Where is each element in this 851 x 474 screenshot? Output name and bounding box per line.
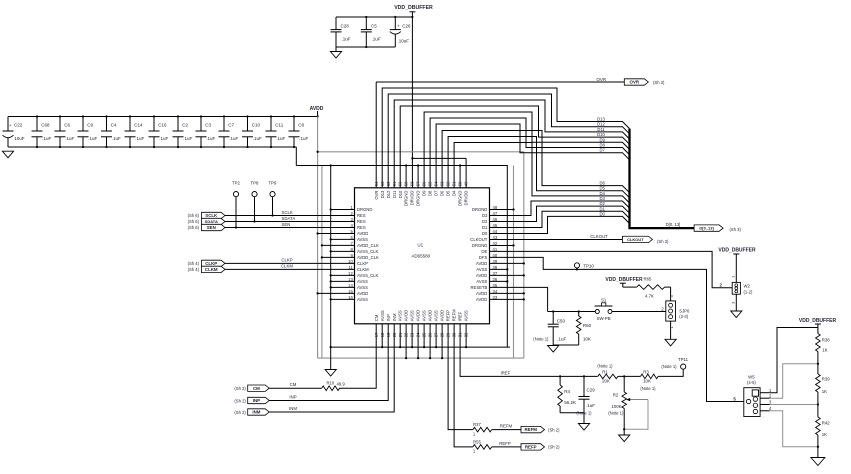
svg-text:D11: D11 xyxy=(392,190,397,198)
node REFP flag (Sh 2) xyxy=(521,444,560,450)
svg-text:AVDD: AVDD xyxy=(476,291,487,296)
svg-text:(Sh 4): (Sh 4) xyxy=(188,267,200,272)
svg-text:10K: 10K xyxy=(583,337,591,342)
svg-text:10K: 10K xyxy=(643,379,651,384)
wire AVSS loop (black) xyxy=(296,164,507,347)
wire D11 xyxy=(394,100,629,188)
svg-text:.1uF: .1uF xyxy=(42,136,51,141)
wire right AVDD stubs xyxy=(490,262,525,300)
capacitor C26 (polarized) xyxy=(390,16,411,47)
wire CLKM xyxy=(225,264,355,270)
wire switch row xyxy=(548,311,666,313)
svg-text:AVSS: AVSS xyxy=(464,310,469,321)
svg-text:DRGND: DRGND xyxy=(458,191,463,206)
svg-text:.1uF: .1uF xyxy=(342,37,351,42)
svg-text:CM: CM xyxy=(290,382,297,387)
svg-text:CLKM: CLKM xyxy=(205,267,218,272)
ground (AVSS rail) xyxy=(325,347,336,376)
svg-text:AVSS: AVSS xyxy=(476,279,487,284)
svg-text:.1uF: .1uF xyxy=(88,136,97,141)
svg-text:+: + xyxy=(9,124,12,129)
svg-text:AVSS: AVSS xyxy=(357,285,368,290)
wire DRGND vertical (gray, inner-right) xyxy=(513,166,515,359)
svg-text:AVDD: AVDD xyxy=(310,106,324,112)
wire D7 xyxy=(436,124,629,188)
node CLKP flag (Sh 4) xyxy=(188,260,225,266)
svg-text:C29: C29 xyxy=(587,388,596,393)
connector W5 (4-5) xyxy=(733,374,772,416)
svg-text:AVDD: AVDD xyxy=(476,297,487,302)
capacitor C7 xyxy=(219,115,239,148)
wire right DRGND stubs xyxy=(490,208,515,246)
svg-text:1K: 1K xyxy=(822,432,827,437)
wire top cap rail xyxy=(336,17,412,47)
wire left AVDD stubs xyxy=(316,232,354,294)
svg-text:RESETB: RESETB xyxy=(471,285,488,290)
svg-text:W5: W5 xyxy=(748,374,755,379)
svg-text:(Sh 2): (Sh 2) xyxy=(234,398,246,403)
wire AVDD vertical (gray, left) xyxy=(317,117,319,359)
resistor R65 xyxy=(623,277,671,299)
svg-text:INM: INM xyxy=(289,406,297,411)
svg-text:TP11: TP11 xyxy=(678,357,689,362)
svg-text:D[0..13]: D[0..13] xyxy=(699,226,714,231)
svg-text:C14: C14 xyxy=(134,123,143,128)
wire right AVSS stubs xyxy=(490,268,509,282)
wire INM xyxy=(269,324,394,412)
node OVR flag (Sh 3) xyxy=(624,79,665,85)
node REFM flag (Sh 2) xyxy=(521,426,560,432)
svg-text:(Note 1): (Note 1) xyxy=(661,364,677,369)
wire SEN xyxy=(225,222,355,228)
wire SCLK xyxy=(225,210,355,216)
wire CLKP xyxy=(225,258,355,264)
svg-text:AVSS: AVSS xyxy=(410,310,415,321)
svg-text:CLKOUT: CLKOUT xyxy=(627,237,644,242)
svg-text:TP8: TP8 xyxy=(251,180,259,185)
svg-text:D6: D6 xyxy=(440,190,445,196)
svg-text:REFP: REFP xyxy=(499,441,511,446)
svg-text:C10: C10 xyxy=(252,123,261,128)
wire REFM / resistor R37 xyxy=(448,324,521,437)
svg-text:AVSS: AVSS xyxy=(476,267,487,272)
node INM flag (Sh 2) xyxy=(234,409,269,415)
svg-text:20K: 20K xyxy=(602,379,610,384)
svg-text:49: 49 xyxy=(464,181,469,186)
svg-text:AVSS: AVSS xyxy=(380,310,385,321)
svg-text:C5: C5 xyxy=(371,23,377,28)
svg-text:VDD_DBUFFER: VDD_DBUFFER xyxy=(605,277,643,283)
svg-text:49.9: 49.9 xyxy=(337,381,346,386)
svg-text:C6: C6 xyxy=(64,123,70,128)
wire RESETB xyxy=(490,287,548,311)
svg-text:R38: R38 xyxy=(822,337,830,342)
wire D10 xyxy=(400,106,629,188)
capacitor C29 xyxy=(576,376,595,415)
svg-text:DRGND: DRGND xyxy=(357,207,372,212)
svg-text:(4-5): (4-5) xyxy=(747,380,756,385)
svg-text:AVSS: AVSS xyxy=(357,297,368,302)
svg-text:R3: R3 xyxy=(643,369,649,374)
wire CLKOUT xyxy=(490,234,623,240)
svg-text:D0: D0 xyxy=(599,211,605,216)
svg-text:10uF: 10uF xyxy=(399,38,410,43)
wire DFS / TP10 net xyxy=(490,257,744,401)
svg-text:D8: D8 xyxy=(428,190,433,196)
svg-text:VDD_DBUFFER: VDD_DBUFFER xyxy=(394,5,433,11)
svg-text:R42: R42 xyxy=(822,421,830,426)
svg-text:10uF: 10uF xyxy=(14,136,25,141)
wire D2 xyxy=(490,201,630,221)
svg-text:C4: C4 xyxy=(111,123,117,128)
svg-text:C11: C11 xyxy=(275,123,283,128)
wire DRGND top stubs xyxy=(405,164,461,187)
svg-text:AVDD_CLK: AVDD_CLK xyxy=(357,243,379,248)
capacitor C2 xyxy=(173,115,193,148)
svg-text:RES: RES xyxy=(357,219,366,224)
capacitor C6 xyxy=(55,115,75,148)
svg-text:C9: C9 xyxy=(87,123,93,128)
svg-text:TP2: TP2 xyxy=(232,180,240,185)
svg-text:REFM: REFM xyxy=(525,427,538,432)
svg-text:SDATA: SDATA xyxy=(205,219,218,224)
svg-text:AVDD: AVDD xyxy=(476,273,487,278)
svg-text:SEN: SEN xyxy=(207,225,216,230)
svg-text:INP: INP xyxy=(289,394,296,399)
svg-text:DRGND: DRGND xyxy=(472,207,487,212)
wire AVDD_CLK vertical (gray, inner-left) xyxy=(321,166,323,359)
test point TP9 xyxy=(269,180,277,216)
svg-text:CLKOUT: CLKOUT xyxy=(590,234,608,239)
wire D6 xyxy=(442,131,629,193)
wire D13 xyxy=(382,88,629,188)
svg-text:(2-3): (2-3) xyxy=(679,314,688,319)
op-amp U1 body (AD65580) xyxy=(355,188,490,324)
svg-text:DFS: DFS xyxy=(479,255,488,260)
svg-text:C8: C8 xyxy=(298,123,304,128)
svg-text:D0: D0 xyxy=(482,231,488,236)
wire AVDD cap row top rail xyxy=(8,115,319,117)
svg-text:.1uF: .1uF xyxy=(557,337,566,342)
svg-text:AVSS: AVSS xyxy=(357,237,368,242)
svg-text:AVDD: AVDD xyxy=(476,261,487,266)
svg-text:IREF: IREF xyxy=(501,371,511,376)
svg-text:R65: R65 xyxy=(644,277,652,282)
svg-text:(Sh 2): (Sh 2) xyxy=(234,410,246,415)
svg-text:(Sh 4): (Sh 4) xyxy=(188,261,200,266)
svg-text:INP: INP xyxy=(386,314,391,321)
node CLKOUT flag (Sh 3) xyxy=(622,236,669,244)
wire D3 xyxy=(490,196,630,215)
wire DRVDD top rail xyxy=(412,158,466,187)
svg-text:C7: C7 xyxy=(228,123,234,128)
wire AVDD loop bottom (gray) xyxy=(318,357,524,359)
power flag VDD_DBUFFER (R38) xyxy=(799,318,837,328)
capacitor C3 xyxy=(196,115,216,148)
jumper SJP6 (2-3) xyxy=(661,287,690,328)
svg-text:RES: RES xyxy=(357,213,366,218)
svg-text:R37: R37 xyxy=(473,422,481,427)
wire VDD_DBUFFER vertical to pin 58 xyxy=(411,16,413,188)
wire OVR xyxy=(376,77,624,188)
wire W5 pin1 to VDD xyxy=(770,328,818,393)
svg-text:CLKM: CLKM xyxy=(357,267,369,272)
svg-text:D2: D2 xyxy=(482,219,488,224)
svg-text:1K: 1K xyxy=(822,389,827,394)
wire D12 xyxy=(388,94,629,188)
svg-text:AVDD: AVDD xyxy=(416,310,421,321)
svg-text:OVR: OVR xyxy=(630,80,640,85)
svg-text:AVSS_CLK: AVSS_CLK xyxy=(357,273,379,278)
svg-text:S1: S1 xyxy=(601,297,607,302)
svg-text:CLKP: CLKP xyxy=(281,258,292,263)
svg-text:AVSS: AVSS xyxy=(357,279,368,284)
svg-text:(Sh 6): (Sh 6) xyxy=(188,213,200,218)
svg-text:.1uF: .1uF xyxy=(372,37,381,42)
svg-text:.1uF: .1uF xyxy=(276,136,285,141)
node SDATA flag (Sh 6) xyxy=(188,218,225,224)
svg-text:D3: D3 xyxy=(482,213,488,218)
wire D0 xyxy=(490,211,630,233)
resistor R4 xyxy=(558,376,576,412)
svg-text:AVSS: AVSS xyxy=(422,310,427,321)
node CM flag (Sh 2) xyxy=(234,385,269,391)
power flag AVDD xyxy=(310,106,324,117)
svg-text:.1uF: .1uF xyxy=(112,136,121,141)
node SCLK flag (Sh 6) xyxy=(188,212,225,218)
svg-text:INM: INM xyxy=(252,410,260,415)
svg-text:D[0..13]: D[0..13] xyxy=(666,222,681,227)
resistor R1 xyxy=(597,364,625,384)
U1 pin numbers and pin names xyxy=(348,181,498,337)
svg-text:(Sh 3): (Sh 3) xyxy=(657,239,669,244)
svg-text:R1: R1 xyxy=(602,369,608,374)
svg-text:C50: C50 xyxy=(557,319,566,324)
svg-text:D10: D10 xyxy=(398,190,403,198)
svg-text:(Sh 6): (Sh 6) xyxy=(188,219,200,224)
svg-text:.1uF: .1uF xyxy=(206,136,215,141)
svg-text:SJP6: SJP6 xyxy=(679,309,690,314)
svg-text:SEN: SEN xyxy=(282,222,291,227)
capacitor C14 xyxy=(125,115,145,148)
ground (R2) xyxy=(619,429,630,441)
capacitor C68 xyxy=(32,115,52,148)
svg-text:AVDD: AVDD xyxy=(357,291,368,296)
wire left AVSS stubs xyxy=(330,208,355,300)
svg-text:.1uF: .1uF xyxy=(183,136,192,141)
wire REFP / resistor R55 xyxy=(454,324,521,454)
svg-text:(Sh 6): (Sh 6) xyxy=(188,225,200,230)
capacitor C28 xyxy=(331,17,351,52)
svg-text:AD65580: AD65580 xyxy=(411,254,430,259)
svg-text:C26: C26 xyxy=(402,23,411,28)
capacitor C4 xyxy=(101,115,121,148)
svg-text:U1: U1 xyxy=(417,243,423,248)
svg-text:AVSS: AVSS xyxy=(434,310,439,321)
capacitor C50 xyxy=(533,310,566,345)
svg-text:100K: 100K xyxy=(611,404,621,409)
svg-text:CLKOUT: CLKOUT xyxy=(470,237,487,242)
ground (C22 row) xyxy=(2,151,13,158)
wire left AVDD_CLK stubs xyxy=(321,244,355,258)
svg-text:W2: W2 xyxy=(744,284,751,289)
svg-text:AVSS: AVSS xyxy=(398,310,403,321)
svg-text:C22: C22 xyxy=(14,123,23,128)
svg-text:REFM: REFM xyxy=(452,309,457,321)
svg-text:D12: D12 xyxy=(386,190,391,198)
power flag VDD_DBUFFER (R65) xyxy=(605,277,643,287)
svg-text:+: + xyxy=(397,25,400,30)
resistor R42 xyxy=(816,405,831,447)
wire D5 xyxy=(448,137,629,198)
wire SDATA xyxy=(225,216,355,222)
resistor R60 xyxy=(576,310,591,345)
svg-text:.1uF: .1uF xyxy=(299,136,308,141)
svg-text:1K: 1K xyxy=(822,348,827,353)
svg-text:(Note 1): (Note 1) xyxy=(608,411,624,416)
wire R3 to TP11 xyxy=(658,369,683,376)
svg-text:INP: INP xyxy=(253,398,260,403)
svg-text:D5: D5 xyxy=(446,190,451,196)
svg-text:.1uF: .1uF xyxy=(586,403,595,408)
svg-text:R10: R10 xyxy=(327,380,335,385)
svg-text:AVDD: AVDD xyxy=(440,310,445,321)
svg-text:D4: D4 xyxy=(452,190,457,196)
svg-text:C2: C2 xyxy=(182,123,188,128)
svg-text:CLKP: CLKP xyxy=(357,261,368,266)
wire AVDD loop right (gray) xyxy=(523,152,525,358)
svg-text:SCLK: SCLK xyxy=(205,213,218,218)
svg-text:IREF: IREF xyxy=(458,311,463,321)
svg-text:R55: R55 xyxy=(473,440,481,445)
test point TP11 xyxy=(661,357,688,369)
wire R1-R3 node xyxy=(618,375,641,377)
svg-text:(Sh 3): (Sh 3) xyxy=(653,80,665,85)
wire D8 xyxy=(430,118,629,188)
test point TP8 xyxy=(251,180,259,222)
svg-text:RES: RES xyxy=(357,225,366,230)
switch S1 SW-PB xyxy=(595,297,613,321)
svg-text:R60: R60 xyxy=(583,323,592,328)
svg-text:DRVDD: DRVDD xyxy=(410,191,415,206)
svg-text:OE: OE xyxy=(481,249,487,254)
svg-text:56.2K: 56.2K xyxy=(564,400,576,405)
svg-text:DRVDD: DRVDD xyxy=(464,191,469,206)
svg-text:DRGND: DRGND xyxy=(404,191,409,206)
svg-text:AVSS_CLK: AVSS_CLK xyxy=(357,249,379,254)
test point TP10 xyxy=(574,263,594,271)
power flag VDD_DBUFFER (W2) xyxy=(718,248,756,259)
wire W5 pin3 (gray) xyxy=(770,403,819,405)
capacitor C11 xyxy=(266,115,286,148)
svg-text:D13: D13 xyxy=(380,190,385,198)
svg-text:TP10: TP10 xyxy=(584,263,595,268)
svg-text:INM: INM xyxy=(392,313,397,321)
wire W5 pin2 (gray) xyxy=(770,363,819,399)
wire D1 xyxy=(490,206,630,227)
svg-text:REFP: REFP xyxy=(446,310,451,321)
wire data bus spine D[0..13] xyxy=(630,129,695,229)
resistor R38 xyxy=(816,328,831,364)
svg-text:VDD_DBUFFER: VDD_DBUFFER xyxy=(799,318,837,324)
svg-text:R2: R2 xyxy=(613,392,619,397)
svg-text:.1uF: .1uF xyxy=(65,136,74,141)
svg-text:(Note 1): (Note 1) xyxy=(533,337,549,342)
svg-text:.1uF: .1uF xyxy=(253,136,262,141)
svg-text:.1uF: .1uF xyxy=(135,136,144,141)
wire D9 xyxy=(424,112,629,188)
node INP flag (Sh 2) xyxy=(234,397,269,403)
node D[0..13] flag (Sh 3) xyxy=(694,225,741,232)
svg-text:AVDD: AVDD xyxy=(404,310,409,321)
svg-text:C16: C16 xyxy=(158,123,167,128)
ground (C50/R60) xyxy=(548,345,579,352)
svg-text:C68: C68 xyxy=(41,123,50,128)
capacitor C8 xyxy=(289,115,309,148)
svg-text:D7: D7 xyxy=(434,190,439,196)
resistor R39 xyxy=(816,364,831,405)
wire D4 xyxy=(454,143,629,204)
test point TP2 xyxy=(232,180,240,228)
capacitor C5 xyxy=(361,16,381,48)
wire AVSS bottom rail (black) xyxy=(330,346,510,348)
svg-text:(Sh 2): (Sh 2) xyxy=(548,427,560,432)
svg-text:SW-PB: SW-PB xyxy=(597,316,611,321)
wire INP xyxy=(269,324,388,401)
svg-text:TP9: TP9 xyxy=(269,180,277,185)
svg-text:CLKM: CLKM xyxy=(281,264,293,269)
ground (C29) xyxy=(578,424,589,431)
svg-text:R39: R39 xyxy=(822,376,830,381)
wire W5 pin4 (gray) xyxy=(770,411,819,448)
power flag VDD_DBUFFER (top) xyxy=(394,5,433,17)
svg-text:(Sh 2): (Sh 2) xyxy=(234,386,246,391)
svg-text:D1: D1 xyxy=(482,225,488,230)
svg-text:DRGND: DRGND xyxy=(472,243,487,248)
connector W2 (1-2) xyxy=(719,258,752,304)
wire CM / resistor R10 xyxy=(269,324,376,391)
wire OE to W2 xyxy=(490,251,733,287)
wire bottom AVSS stubs xyxy=(381,324,467,348)
svg-text:REFP: REFP xyxy=(525,445,537,450)
wire AVDD loop top (gray) xyxy=(316,151,523,153)
svg-text:CLKP: CLKP xyxy=(205,261,217,266)
svg-text:(Note 1): (Note 1) xyxy=(640,386,656,391)
svg-text:(Sh 2): (Sh 2) xyxy=(548,445,560,450)
svg-text:OVR: OVR xyxy=(374,191,379,200)
svg-text:AVDD: AVDD xyxy=(428,310,433,321)
capacitor C22 xyxy=(3,117,25,148)
ground (R42) xyxy=(811,447,825,466)
svg-text:D9: D9 xyxy=(422,190,427,196)
ground (SJP6) xyxy=(665,321,676,346)
svg-text:.1uF: .1uF xyxy=(159,136,168,141)
node SEN flag (Sh 6) xyxy=(188,224,225,230)
svg-text:(Note 1): (Note 1) xyxy=(597,364,613,369)
svg-text:C28: C28 xyxy=(341,23,350,28)
svg-text:.1uF: .1uF xyxy=(229,136,238,141)
svg-text:AVDD: AVDD xyxy=(357,231,368,236)
svg-text:AVDD_CLK: AVDD_CLK xyxy=(357,255,379,260)
svg-text:CM: CM xyxy=(253,386,260,391)
svg-text:(Sh 3): (Sh 3) xyxy=(730,227,742,232)
ground (W2) xyxy=(731,294,742,317)
svg-text:OVR: OVR xyxy=(596,77,606,82)
svg-text:SCLK: SCLK xyxy=(282,210,293,215)
svg-text:4.7K: 4.7K xyxy=(645,293,654,298)
ground (C28) xyxy=(330,52,341,59)
svg-text:SDATA: SDATA xyxy=(282,216,296,221)
